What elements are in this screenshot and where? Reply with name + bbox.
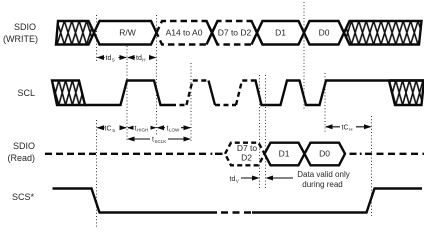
bus segment D0 bbox=[304, 21, 344, 45]
svg-text:D1: D1 bbox=[279, 149, 290, 159]
bus segment R/W bbox=[94, 21, 157, 45]
dimension td_H bbox=[127, 53, 157, 63]
vertical dotted line L1 upper bbox=[96, 15, 98, 61]
svg-text:tC: tC bbox=[105, 126, 112, 133]
SCL don't-care hatch left bbox=[52, 81, 85, 106]
SCL don't-care hatch right bbox=[389, 81, 424, 106]
svg-text:D0: D0 bbox=[319, 149, 330, 159]
vertical dotted line L5 bbox=[259, 75, 261, 188]
svg-text:R/W: R/W bbox=[119, 28, 136, 38]
dimension t_HIGH bbox=[127, 124, 157, 133]
vertical dotted line L4 bbox=[190, 63, 192, 141]
read bus segment D0 bbox=[305, 143, 346, 166]
pinch X at A14/D7 bbox=[207, 21, 218, 45]
bus segment D1 bbox=[257, 21, 304, 45]
svg-text:H: H bbox=[142, 58, 145, 63]
SCS dashed low (time break) bbox=[221, 211, 252, 213]
vertical dotted line L8 bbox=[371, 116, 373, 216]
SCS waveform high/fall/low bbox=[53, 189, 218, 213]
SDIO write don't-care hatch right bbox=[344, 21, 422, 45]
dimension t_LOW bbox=[157, 124, 192, 133]
SCL waveform dashed rise 2 bbox=[236, 81, 252, 106]
svg-text:D0: D0 bbox=[319, 28, 330, 38]
vertical dotted line L3 bbox=[156, 15, 158, 141]
svg-text:(Read): (Read) bbox=[7, 153, 35, 163]
svg-text:(WRITE): (WRITE) bbox=[3, 34, 38, 44]
bus segment A14 to A0 (dashed) bbox=[157, 21, 213, 45]
svg-text:A14 to A0: A14 to A0 bbox=[166, 28, 203, 38]
svg-text:D7 to D2: D7 to D2 bbox=[218, 28, 252, 38]
pinch X at D7/D1 bbox=[252, 21, 263, 45]
svg-text:td: td bbox=[230, 176, 236, 183]
svg-text:td: td bbox=[136, 55, 142, 62]
SCL waveform solid part 1 bbox=[85, 81, 171, 106]
svg-text:V: V bbox=[236, 179, 239, 184]
SDIO read idle dash-dot right bbox=[350, 153, 424, 155]
read bus segment D7 to D2 (dashed) bbox=[225, 143, 265, 166]
dimension tC_H bbox=[325, 122, 372, 132]
svg-text:SDIO: SDIO bbox=[14, 22, 36, 32]
SCL waveform dashed low 1 bbox=[171, 104, 187, 106]
label SDIO (Read) bbox=[7, 141, 35, 163]
svg-text:Data valid only: Data valid only bbox=[297, 170, 349, 179]
svg-text:SCS*: SCS* bbox=[12, 192, 35, 202]
svg-text:during read: during read bbox=[302, 180, 342, 189]
vertical dotted line L1 lower bbox=[96, 120, 98, 228]
svg-text:tC: tC bbox=[342, 125, 349, 132]
vertical dotted line L6 bbox=[265, 75, 267, 188]
SCL waveform fall solid bbox=[209, 81, 216, 106]
svg-text:D7 to: D7 to bbox=[237, 143, 258, 153]
annotation data valid arrow bbox=[266, 176, 294, 181]
label SDIO (WRITE) bbox=[3, 22, 38, 44]
read bus segment D1 bbox=[265, 143, 305, 166]
svg-text:td: td bbox=[106, 55, 112, 62]
dimension t_SCLK bbox=[127, 135, 191, 145]
svg-text:SCL: SCL bbox=[17, 88, 35, 98]
svg-text:D1: D1 bbox=[275, 28, 286, 38]
annotation td_v with arrow bbox=[230, 176, 260, 184]
svg-text:SCLK: SCLK bbox=[155, 139, 167, 144]
bus segment D7 to D2 (dashed) bbox=[212, 21, 257, 45]
SCL waveform dashed low 2 bbox=[215, 104, 236, 106]
svg-text:D2: D2 bbox=[241, 153, 252, 163]
SDIO read idle dashed line left bbox=[45, 153, 208, 155]
dimension tC_S bbox=[97, 123, 128, 133]
SCL waveform solid part 2 bbox=[252, 81, 424, 106]
svg-text:S: S bbox=[112, 128, 115, 133]
svg-text:LOW: LOW bbox=[169, 128, 180, 133]
svg-text:H: H bbox=[349, 127, 352, 132]
SCS low/rise/high bbox=[252, 189, 422, 213]
svg-text:SDIO: SDIO bbox=[13, 141, 35, 151]
svg-text:HIGH: HIGH bbox=[137, 128, 148, 133]
vertical dotted line L2 bbox=[126, 46, 128, 141]
dimension td_S bbox=[97, 53, 128, 63]
annotation Data valid only during read bbox=[297, 170, 349, 189]
SDIO write don't-care hatch left bbox=[56, 21, 94, 45]
svg-text:S: S bbox=[112, 58, 115, 63]
SCL waveform dashed pulse bbox=[187, 81, 209, 106]
vertical dotted line L7 bbox=[324, 73, 326, 132]
vertical dotted line center bbox=[303, 2, 305, 110]
